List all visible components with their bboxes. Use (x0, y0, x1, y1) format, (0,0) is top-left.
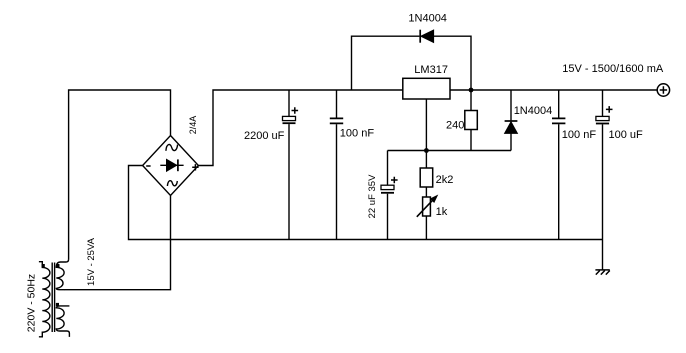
svg-text:100 nF: 100 nF (562, 129, 597, 141)
transformer T1 polarity dot primary (42, 264, 45, 267)
svg-text:1N4004: 1N4004 (408, 13, 447, 25)
capacitor C5 22uF (381, 177, 398, 240)
label 2k2 (436, 174, 454, 186)
svg-text:22 uF 35V: 22 uF 35V (367, 174, 378, 218)
svg-text:100 nF: 100 nF (340, 127, 375, 139)
label 2200 uF (244, 130, 285, 142)
transformer T1 secondary winding 1 (56, 259, 68, 290)
svg-text:15V - 1500/1600 mA: 15V - 1500/1600 mA (562, 63, 664, 75)
label 15V - 1500/1600 mA (562, 63, 664, 75)
svg-text:100 uF: 100 uF (609, 129, 644, 141)
wire 2k2 top (425, 151, 427, 169)
svg-text:240: 240 (446, 120, 464, 132)
svg-text:2200 uF: 2200 uF (244, 130, 285, 142)
resistor R2 2k2 (420, 168, 433, 187)
wire pot bottom (425, 216, 427, 240)
wire 22uF branch (387, 151, 389, 186)
wire 240 top (470, 90, 472, 111)
bridge rectifier B1 body (143, 136, 199, 196)
label 1N4004 right (514, 105, 553, 117)
wire feedback branch right (434, 36, 471, 90)
svg-text:15V - 25VA: 15V - 25VA (86, 237, 97, 286)
label 220V - 50Hz (26, 274, 38, 332)
label 15V - 25VA (86, 237, 97, 286)
wire D2 bottom stub (510, 133, 512, 150)
label 100 uF (609, 129, 644, 141)
wire D2 top (510, 90, 512, 120)
svg-text:2/4A: 2/4A (188, 116, 198, 135)
capacitor C1 2200uF (283, 90, 299, 240)
svg-text:2k2: 2k2 (436, 174, 454, 186)
transformer T1 primary winding (39, 262, 50, 337)
wire output bus (450, 89, 657, 91)
label 100 nF right (562, 129, 597, 141)
capacitor C3 100nF (552, 90, 565, 240)
label 1k (436, 206, 448, 218)
svg-text:LM317: LM317 (414, 64, 448, 76)
diode D1 1N4004 (420, 30, 433, 43)
potentiometer R3 1k (417, 195, 438, 216)
svg-text:1k: 1k (436, 206, 448, 218)
wire ADJ pin (425, 99, 427, 151)
transformer T1 polarity dot secondary 2 (56, 303, 59, 306)
label LM317 (414, 64, 448, 76)
junction node output (469, 88, 474, 93)
capacitor C2 100nF (330, 90, 343, 240)
capacitor C4 100uF (596, 90, 613, 240)
svg-text:1N4004: 1N4004 (514, 105, 553, 117)
label 22 uF 35V (367, 174, 378, 218)
transformer T1 core (52, 263, 54, 333)
wire feedback branch left (352, 36, 420, 90)
wire bridge plus to regulator input (198, 90, 402, 166)
label 240 (446, 120, 464, 132)
resistor R1 240 (465, 111, 478, 130)
transformer T1 secondary winding 2 (unused) (56, 306, 69, 337)
bridge rectifier B1 internal diode (160, 159, 183, 171)
wire ADJ rail (388, 150, 512, 152)
transformer T1 polarity dot secondary 1 (56, 264, 59, 267)
wire R2 to R3 (425, 187, 427, 197)
bridge rectifier B1 plus mark (192, 164, 198, 170)
bridge rectifier B1 AC squiggle top (166, 145, 178, 151)
junction node ADJ (424, 148, 429, 153)
wire bridge minus to ground bus (129, 166, 603, 240)
wire 240 bottom (470, 130, 472, 151)
diode D2 1N4004 (505, 121, 518, 133)
bridge rectifier B1 minus mark (146, 165, 150, 167)
svg-text:220V - 50Hz: 220V - 50Hz (26, 274, 38, 332)
label 1N4004 top (408, 13, 447, 25)
wire secondary bottom to bridge AC2 (64, 196, 171, 290)
wire secondary top to bridge AC1 (69, 90, 171, 259)
regulator U1 LM317 (403, 78, 450, 99)
label 100 nF (340, 127, 375, 139)
bridge rectifier B1 AC squiggle bottom (167, 181, 177, 186)
label 2/4A (188, 116, 198, 135)
ground (595, 240, 609, 275)
output terminal (657, 84, 669, 96)
